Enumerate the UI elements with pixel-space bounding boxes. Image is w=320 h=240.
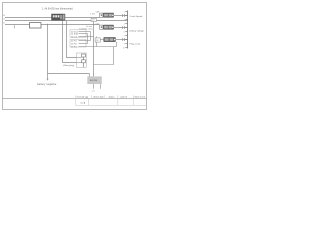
svg-text:checked app: checked app bbox=[76, 96, 89, 98]
svg-text:1.5R: 1.5R bbox=[90, 14, 95, 16]
svg-text:16 Crk: 16 Crk bbox=[71, 36, 77, 38]
svg-text:9: 9 bbox=[124, 43, 125, 45]
svg-text:B-1234: B-1234 bbox=[90, 80, 98, 82]
svg-text:10: 10 bbox=[123, 47, 125, 49]
svg-text:22 Pl1: 22 Pl1 bbox=[71, 40, 78, 42]
svg-text:1. Alt B+S5 fuse (thermostat): 1. Alt B+S5 fuse (thermostat) bbox=[42, 8, 73, 11]
svg-text:battery voltage: battery voltage bbox=[130, 30, 145, 33]
svg-text:Plug circuit: Plug circuit bbox=[130, 43, 141, 46]
svg-text:24 Pl2: 24 Pl2 bbox=[71, 43, 78, 45]
svg-text:5: 5 bbox=[124, 27, 125, 29]
svg-text:dwg n: dwg n bbox=[109, 96, 115, 98]
svg-text:26 Sns: 26 Sns bbox=[71, 46, 77, 48]
svg-text:rev A: rev A bbox=[80, 101, 85, 104]
svg-text:(Glow plug): (Glow plug) bbox=[63, 65, 74, 67]
svg-text:1: 1 bbox=[124, 11, 125, 13]
svg-text:14 SwB: 14 SwB bbox=[71, 33, 79, 35]
svg-text:15: 15 bbox=[3, 19, 5, 21]
svg-text:31: 31 bbox=[3, 23, 5, 25]
svg-text:30: 30 bbox=[3, 15, 5, 17]
svg-text:Crank Speed: Crank Speed bbox=[130, 15, 144, 18]
svg-text:3: 3 bbox=[124, 19, 125, 21]
svg-text:sheet 1 of 2: sheet 1 of 2 bbox=[134, 95, 146, 98]
svg-text:scale of: scale of bbox=[120, 96, 128, 98]
svg-text:2: 2 bbox=[124, 15, 125, 17]
svg-text:7: 7 bbox=[124, 35, 125, 37]
svg-text:Xx xxx: Xx xxx bbox=[86, 26, 92, 28]
svg-text:battery negative: battery negative bbox=[37, 83, 57, 86]
svg-text:6: 6 bbox=[124, 31, 125, 33]
svg-text:drawn date: drawn date bbox=[93, 95, 104, 98]
svg-text:4: 4 bbox=[124, 23, 125, 25]
svg-text:8: 8 bbox=[124, 39, 125, 41]
